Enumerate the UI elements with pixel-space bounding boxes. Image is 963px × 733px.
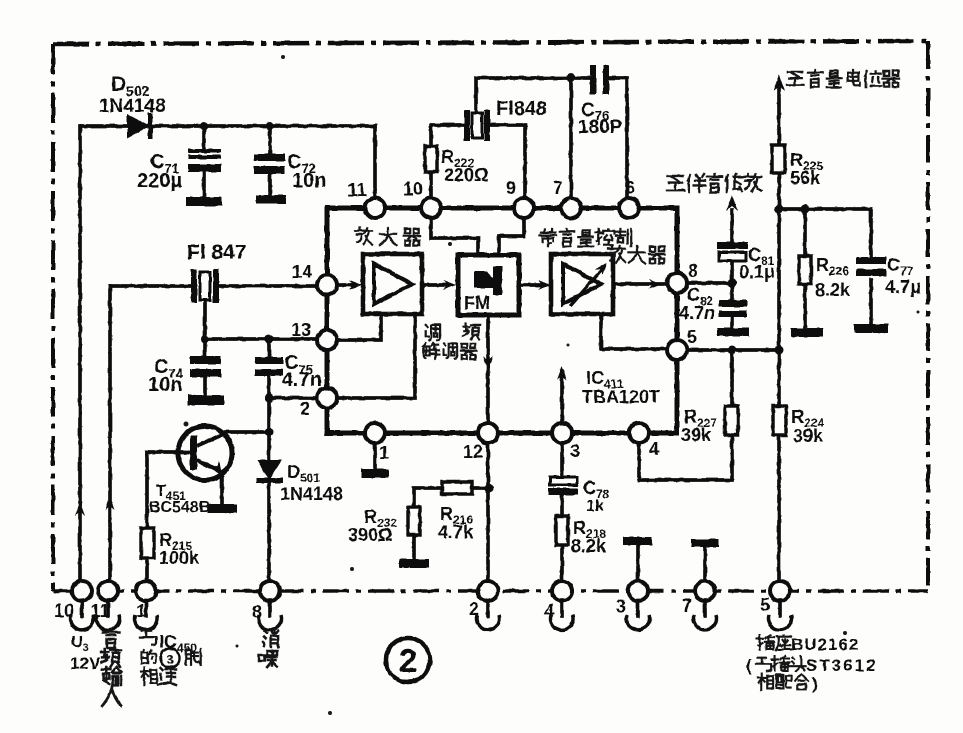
svg-text:56k: 56k (790, 168, 821, 188)
svg-text:BU2162: BU2162 (791, 635, 859, 654)
svg-text:180P: 180P (578, 117, 623, 138)
svg-text:3: 3 (166, 652, 173, 667)
svg-text:10n: 10n (292, 170, 326, 192)
svg-text:14: 14 (292, 262, 312, 282)
svg-text:10n: 10n (148, 374, 182, 396)
svg-text:12V: 12V (70, 654, 101, 673)
svg-text:8: 8 (252, 602, 262, 622)
svg-text:220μ: 220μ (137, 170, 183, 192)
svg-text:4.7k: 4.7k (438, 522, 474, 542)
svg-text:5: 5 (687, 327, 697, 347)
svg-text:4.7μ: 4.7μ (885, 277, 921, 297)
svg-text:1N4148: 1N4148 (280, 484, 343, 504)
svg-text:2: 2 (300, 399, 310, 419)
svg-text:8.2k: 8.2k (815, 280, 851, 300)
svg-text:2: 2 (399, 642, 417, 679)
svg-text:7: 7 (553, 178, 563, 198)
svg-text:FI848: FI848 (496, 98, 547, 120)
svg-text:5: 5 (760, 595, 770, 615)
svg-text:9: 9 (506, 178, 516, 198)
svg-text:3: 3 (570, 441, 580, 461)
svg-text:): ) (812, 674, 818, 693)
svg-text:0.1μ: 0.1μ (739, 262, 775, 282)
svg-text:1: 1 (136, 601, 146, 621)
svg-text:4: 4 (649, 439, 659, 459)
svg-text:FM: FM (464, 293, 490, 313)
svg-text:4.7n: 4.7n (679, 303, 715, 323)
svg-text:11: 11 (347, 180, 366, 200)
svg-text:100k: 100k (159, 548, 200, 568)
svg-text:1: 1 (379, 443, 389, 463)
svg-text:(: ( (746, 656, 752, 675)
svg-text:4: 4 (544, 601, 554, 621)
svg-text:13: 13 (291, 320, 311, 340)
svg-text:8.2k: 8.2k (571, 536, 607, 556)
svg-text:2: 2 (469, 599, 479, 619)
svg-text:TBA120T: TBA120T (582, 387, 660, 407)
svg-text:10: 10 (403, 179, 423, 199)
svg-text:3: 3 (616, 596, 626, 616)
svg-text:BC548B: BC548B (149, 499, 210, 516)
svg-text:39k: 39k (793, 426, 824, 446)
svg-text:ST3612: ST3612 (806, 656, 878, 675)
svg-text:8: 8 (688, 261, 698, 281)
svg-text:10: 10 (54, 601, 74, 621)
svg-text:220Ω: 220Ω (444, 165, 488, 185)
svg-text:1k: 1k (586, 498, 604, 515)
svg-text:12: 12 (463, 442, 483, 462)
svg-text:39k: 39k (681, 425, 712, 445)
svg-text:6: 6 (625, 178, 635, 198)
svg-text:11: 11 (90, 601, 109, 621)
svg-text:390Ω: 390Ω (348, 525, 392, 545)
svg-text:7: 7 (682, 596, 692, 616)
svg-text:FI 847: FI 847 (187, 241, 247, 264)
svg-text:1N4148: 1N4148 (99, 96, 166, 117)
svg-text:4.7n: 4.7n (282, 369, 322, 391)
